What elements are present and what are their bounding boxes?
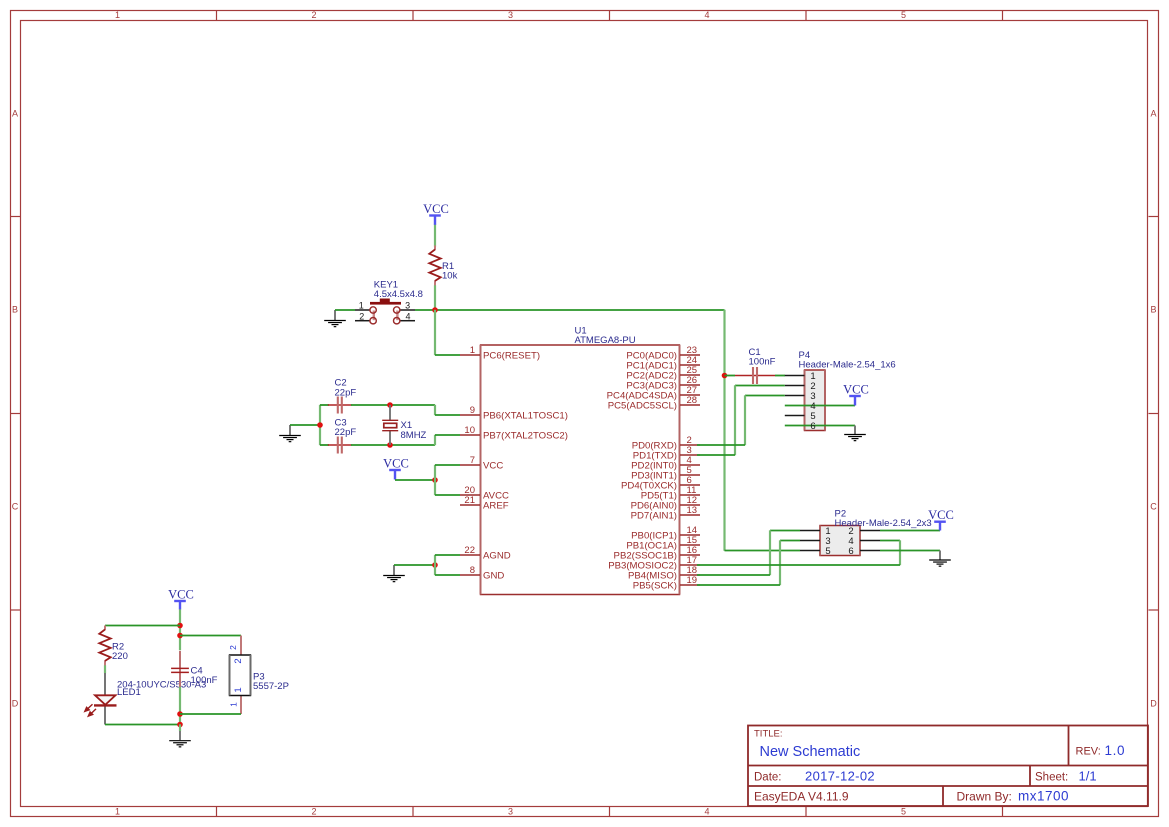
svg-text:A: A: [1150, 109, 1156, 119]
wire P4 pin2: [735, 385, 785, 387]
wire C1 to P4 pin1: [775, 375, 785, 377]
node junction crystal ground: [317, 422, 323, 428]
svg-text:GND: GND: [483, 570, 504, 581]
LED LED1: [85, 673, 117, 725]
node junction X1 bottom: [387, 442, 393, 448]
svg-text:2: 2: [359, 312, 364, 322]
P2 pin stubs: [800, 531, 880, 551]
svg-text:VCC: VCC: [423, 202, 449, 216]
wire C2 to U1 pin9 XTAL1: [351, 405, 460, 415]
svg-text:D: D: [12, 699, 19, 709]
svg-text:2017-12-02: 2017-12-02: [805, 769, 875, 784]
svg-text:ATMEGA8-PU: ATMEGA8-PU: [575, 335, 636, 346]
svg-text:Date:: Date:: [754, 771, 782, 783]
U1 pin 13 PD7(AIN1): [631, 505, 700, 521]
wire node to P3 pin2: [180, 635, 241, 637]
switch KEY1: [355, 299, 415, 324]
svg-text:A: A: [12, 109, 18, 119]
svg-text:C: C: [12, 502, 19, 512]
svg-text:D: D: [1150, 699, 1157, 709]
connector P3: [228, 636, 251, 715]
label P4 Header-Male-2.54_1x6: [799, 350, 896, 371]
wire P2 pin3 to U1 pin19 SCK: [697, 540, 800, 585]
frame row letters left: [12, 109, 19, 709]
svg-text:VCC: VCC: [383, 456, 409, 470]
U1 pin 18 PB4(MISO): [628, 565, 700, 581]
U1 pin 9 PB6(XTAL1TOSC1): [460, 405, 568, 421]
node junction AVCC: [432, 477, 438, 483]
U1 pin 22 AGND: [460, 545, 511, 561]
svg-text:8: 8: [470, 565, 475, 576]
IC U1 ATMEGA8-PU body: [481, 345, 680, 595]
svg-text:VCC: VCC: [843, 382, 869, 396]
svg-text:AGND: AGND: [483, 550, 511, 561]
node junction C1: [722, 373, 728, 379]
label R2 220: [112, 641, 128, 662]
wire P4 pin3: [745, 395, 785, 397]
U1 pin 16 PB2(SSOC1B): [614, 545, 700, 561]
U1 pin 4 PD2(INT0): [631, 455, 700, 471]
P4 pin stubs: [785, 376, 805, 416]
svg-text:1: 1: [359, 301, 364, 311]
resistor R1: [434, 246, 436, 251]
U1 pin 3 PD1(TXD): [633, 445, 700, 461]
svg-text:EasyEDA V4.11.9: EasyEDA V4.11.9: [754, 790, 849, 804]
wire to C3: [320, 444, 329, 446]
svg-text:5: 5: [901, 806, 906, 816]
node junction P3 branch: [177, 633, 183, 639]
wire LED1 to ground net: [105, 724, 180, 726]
svg-text:5557-2P: 5557-2P: [253, 681, 289, 692]
svg-text:2: 2: [311, 10, 316, 20]
U1 pin 28 PC5(ADC5SCL): [608, 395, 700, 411]
wire P4 pin6 to ground: [785, 425, 855, 427]
svg-text:100nF: 100nF: [749, 357, 776, 368]
label P3 5557-2P: [253, 672, 289, 693]
frame column ticks top: [217, 11, 1003, 21]
capacitor C3: [328, 444, 352, 446]
capacitor C2: [328, 404, 352, 406]
node junction R1/KEY1: [432, 307, 438, 313]
svg-text:1: 1: [229, 702, 239, 707]
P4 pin numbers: [810, 371, 815, 432]
label C3 22pF: [335, 417, 357, 438]
label P2 Header-Male-2.54_2x3: [835, 509, 932, 530]
svg-text:Header-Male-2.54_1x6: Header-Male-2.54_1x6: [799, 360, 896, 371]
title block texts: [754, 729, 1125, 804]
capacitor C1: [735, 375, 775, 377]
wire ground to KEY1 pin1: [335, 309, 355, 311]
wire VCC to R1: [434, 225, 436, 247]
svg-text:4: 4: [704, 806, 709, 816]
P2 pin numbers: [825, 526, 853, 557]
power flag VCC (AVCC): [383, 456, 409, 479]
wire P2 pin2 to VCC: [880, 530, 940, 532]
svg-text:1: 1: [233, 687, 244, 692]
wire P2 pin1 to U1 pin18 MISO: [697, 530, 800, 575]
svg-text:VCC: VCC: [483, 460, 503, 471]
ground (LED block): [179, 731, 181, 740]
connector P2 body: [820, 526, 860, 556]
ground (KEY1): [334, 310, 336, 320]
node junction R2 branch: [177, 623, 183, 629]
svg-text:220: 220: [112, 651, 128, 662]
wire node to U1 pin22 AGND: [435, 555, 460, 565]
frame column ticks bottom: [217, 807, 1003, 817]
svg-text:mx1700: mx1700: [1018, 789, 1069, 804]
U1 pin 25 PC2(ADC2): [626, 365, 700, 381]
svg-text:19: 19: [687, 575, 698, 586]
svg-text:13: 13: [687, 505, 698, 516]
wire VCC to AVCC node: [395, 479, 435, 481]
svg-text:1: 1: [115, 806, 120, 816]
U1 pin 20 AVCC: [460, 485, 509, 501]
wire node to U1 pin20 AVCC: [435, 480, 460, 495]
svg-text:100nF: 100nF: [191, 675, 218, 686]
U1 pin 11 PD5(T1): [641, 485, 700, 501]
U1 pin 12 PD6(AIN0): [631, 495, 700, 511]
U1 pin 14 PB0(ICP1): [631, 525, 700, 541]
svg-text:1: 1: [470, 345, 475, 356]
U1 pin 26 PC3(ADC3): [626, 375, 700, 391]
wire KEY1 pin3 to right column: [415, 309, 725, 311]
svg-text:PB6(XTAL1TOSC1): PB6(XTAL1TOSC1): [483, 410, 568, 421]
wire R2 to LED1: [104, 665, 106, 673]
wire right column to P2 pin5: [725, 310, 801, 551]
svg-text:New Schematic: New Schematic: [760, 744, 861, 760]
svg-text:5: 5: [901, 10, 906, 20]
U1 pin 10 PB7(XTAL2TOSC2): [460, 425, 568, 441]
wire P3 pin1 to ground net: [180, 713, 241, 715]
crystal X1: [382, 405, 398, 445]
U1 pin 2 PD0(RXD): [632, 435, 700, 451]
resistor R2: [104, 626, 106, 631]
wire C4 to ground net: [179, 687, 181, 725]
ground (P2 pin6): [939, 551, 941, 560]
node junction LED return: [177, 722, 183, 728]
U1 pin 7 VCC: [460, 455, 503, 471]
label LED1 204-10UYC/S530-A3: [117, 679, 206, 698]
wire P4 pin4 to VCC: [785, 405, 855, 407]
U1 pin 21 AREF: [460, 495, 509, 511]
label C2 22pF: [335, 378, 357, 399]
wire node to U1 pin1 (RESET): [435, 310, 460, 355]
svg-text:22pF: 22pF: [335, 387, 357, 398]
U1 pin 23 PC0(ADC0): [626, 345, 700, 361]
wire to C2: [320, 404, 329, 406]
svg-text:PB7(XTAL2TOSC2): PB7(XTAL2TOSC2): [483, 430, 568, 441]
svg-text:VCC: VCC: [928, 508, 954, 522]
ground (P4 pin6): [854, 426, 856, 435]
U1 pin 15 PB1(OC1A): [626, 535, 700, 551]
svg-text:3: 3: [508, 806, 513, 816]
U1 pin 19 PB5(SCK): [633, 575, 700, 591]
svg-text:PB5(SCK): PB5(SCK): [633, 580, 677, 591]
svg-text:B: B: [1150, 305, 1156, 315]
frame column numbers bottom: [115, 806, 906, 816]
svg-text:21: 21: [464, 495, 475, 506]
wire node to U1 pin7 VCC: [435, 465, 460, 480]
svg-text:6: 6: [810, 421, 815, 432]
svg-text:3: 3: [508, 10, 513, 20]
frame row letters right: [1150, 109, 1157, 709]
U1 pin 17 PB3(MOSIOC2): [608, 555, 700, 571]
U1 pin 6 PD4(T0XCK): [621, 475, 700, 491]
svg-text:2: 2: [233, 658, 244, 663]
wire node to R2: [105, 625, 180, 627]
wire R1 to node: [434, 285, 436, 310]
power flag VCC (P2 pin2): [928, 508, 954, 530]
wire C2-C3 vertical: [319, 405, 321, 445]
frame column numbers top: [115, 10, 906, 20]
svg-text:PC5(ADC5SCL): PC5(ADC5SCL): [608, 400, 677, 411]
frame row ticks left: [11, 217, 21, 611]
title block: [748, 726, 1148, 807]
U1 pin 8 GND: [460, 565, 504, 581]
svg-text:PC6(RESET): PC6(RESET): [483, 350, 540, 361]
U1 pin 27 PC4(ADC4SDA): [607, 385, 700, 401]
svg-text:4.5x4.5x4.8: 4.5x4.5x4.8: [374, 289, 423, 300]
power flag VCC (LED block): [168, 587, 194, 609]
svg-text:1/1: 1/1: [1079, 769, 1097, 784]
svg-text:22pF: 22pF: [335, 427, 357, 438]
svg-text:22: 22: [464, 545, 475, 556]
svg-text:C: C: [1150, 502, 1157, 512]
svg-text:Drawn By:: Drawn By:: [957, 790, 1012, 804]
svg-text:TITLE:: TITLE:: [754, 729, 783, 740]
label X1 8MHZ: [401, 420, 427, 441]
wire P2 pin4 to U1 pin17 MOSI: [697, 540, 900, 565]
ground (crystal): [289, 425, 291, 435]
wire ground to AGND node: [394, 564, 435, 566]
svg-text:4: 4: [704, 10, 709, 20]
svg-text:2: 2: [228, 645, 238, 650]
svg-text:Sheet:: Sheet:: [1035, 771, 1068, 783]
wire P2 pin6 to ground: [880, 550, 940, 552]
wire node to U1 pin8 GND: [435, 565, 460, 575]
svg-text:8MHZ: 8MHZ: [401, 430, 427, 441]
svg-text:4: 4: [405, 312, 410, 322]
wire to ground (LED block): [179, 724, 181, 731]
svg-text:Header-Male-2.54_2x3: Header-Male-2.54_2x3: [835, 518, 932, 529]
svg-text:AREF: AREF: [483, 500, 509, 511]
ground (AGND): [393, 565, 395, 575]
connector P4 body: [805, 370, 826, 431]
svg-text:5: 5: [825, 546, 830, 557]
svg-text:REV:: REV:: [1076, 746, 1101, 758]
wire P4 pin2 to U1 pin3 TXD: [697, 385, 735, 455]
svg-text:10k: 10k: [442, 271, 458, 282]
svg-text:9: 9: [470, 405, 475, 416]
label C1 100nF: [749, 347, 776, 368]
label R1 value 10k: [442, 261, 458, 282]
node junction AGND: [432, 562, 438, 568]
label U1 ATMEGA8-PU: [575, 325, 636, 346]
wire node to C1: [725, 375, 736, 377]
svg-text:6: 6: [848, 546, 853, 557]
svg-text:10: 10: [464, 425, 475, 436]
wire C3 to U1 pin10 XTAL2: [351, 435, 460, 445]
svg-text:7: 7: [470, 455, 475, 466]
node junction P3 return: [177, 711, 183, 717]
svg-text:B: B: [12, 305, 18, 315]
wire P4 pin3 to U1 pin2 RXD: [697, 395, 745, 445]
capacitor C4: [179, 651, 181, 690]
U1 pin 5 PD3(INT1): [631, 465, 700, 481]
svg-text:VCC: VCC: [168, 587, 194, 601]
svg-text:1.0: 1.0: [1105, 743, 1126, 758]
svg-text:28: 28: [687, 395, 698, 406]
U1 pin 1 PC6(RESET): [460, 345, 540, 361]
label KEY1: [374, 279, 423, 300]
power flag VCC (P4 pin4): [843, 382, 869, 405]
svg-text:LED1: LED1: [117, 687, 141, 698]
wire ground to crystal node: [290, 424, 320, 426]
svg-text:3: 3: [405, 301, 410, 311]
svg-text:1: 1: [115, 10, 120, 20]
U1 pin 24 PC1(ADC1): [626, 355, 700, 371]
label C4 100nF: [191, 665, 218, 686]
power flag VCC (above R1): [423, 202, 449, 225]
wire VCC down to C4: [179, 609, 181, 650]
frame row ticks right: [1149, 217, 1159, 611]
svg-text:2: 2: [311, 806, 316, 816]
svg-text:PD7(AIN1): PD7(AIN1): [631, 510, 677, 521]
node junction X1 top: [387, 402, 393, 408]
